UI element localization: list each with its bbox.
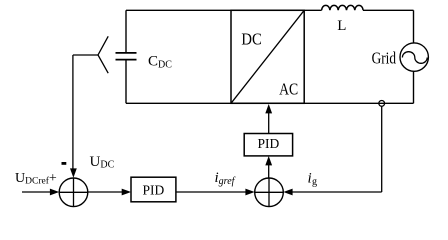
svg-text:Grid: Grid: [372, 48, 397, 67]
wire top lead right of inductor: [363, 9, 414, 11]
wire PID2 up to converter: [268, 113, 270, 134]
capacitor C1 plates: [116, 53, 137, 60]
voltage probe fork at capacitor: [98, 36, 108, 73]
wire left DC-link edge lower lead: [125, 60, 127, 104]
wire probe horizontal: [73, 54, 98, 56]
wire U_DC measurement down to summer: [72, 55, 74, 170]
svg-text:DC: DC: [241, 29, 261, 48]
wire ig feedback horizontal: [292, 191, 382, 193]
arrow into summing junction S2 from left: [245, 189, 254, 196]
controller PID1 box: [131, 177, 176, 202]
arrow into PID1: [122, 189, 131, 196]
converter diagonal: [231, 10, 304, 103]
wire right grid branch upper: [413, 10, 415, 43]
arrow into summing junction S2 from right: [283, 189, 292, 196]
wire ig feedback vertical: [381, 106, 383, 192]
arrow into PID2 from bottom: [265, 156, 272, 165]
AC source V1 circle: [400, 43, 428, 71]
converter box U1: [231, 10, 304, 103]
inductor L1: [322, 5, 363, 10]
wire S1 to PID1: [88, 191, 123, 193]
svg-text:PID: PID: [258, 136, 280, 151]
wire top bus from DC-link left to converter and inductor: [126, 9, 322, 11]
svg-text:g: g: [312, 177, 317, 188]
wire left DC-link edge upper lead: [125, 10, 127, 53]
summing junction S2: [255, 178, 284, 207]
controller PID2 box: [244, 134, 292, 156]
summing junction S1: [59, 178, 88, 207]
svg-text:AC: AC: [279, 79, 298, 98]
summing junction S1 cross: [59, 178, 88, 207]
wire U_DCref input: [22, 191, 51, 193]
AC source sine wave: [402, 52, 427, 64]
svg-text:PID: PID: [143, 182, 165, 197]
summing junction S2 cross: [255, 178, 284, 207]
arrow into summing junction S1 from left: [50, 189, 59, 196]
arrow from PID2 into bottom bus: [265, 104, 272, 113]
wire S2 up to PID2: [268, 165, 270, 178]
wire right grid branch lower: [413, 71, 415, 103]
svg-text:L: L: [337, 18, 346, 34]
label minus sign: [62, 162, 67, 165]
node ig tap: [379, 101, 385, 107]
wire PID1 to S2: [176, 191, 246, 193]
wire bottom bus: [126, 102, 414, 104]
arrow into summing junction S1 from top: [70, 168, 77, 177]
